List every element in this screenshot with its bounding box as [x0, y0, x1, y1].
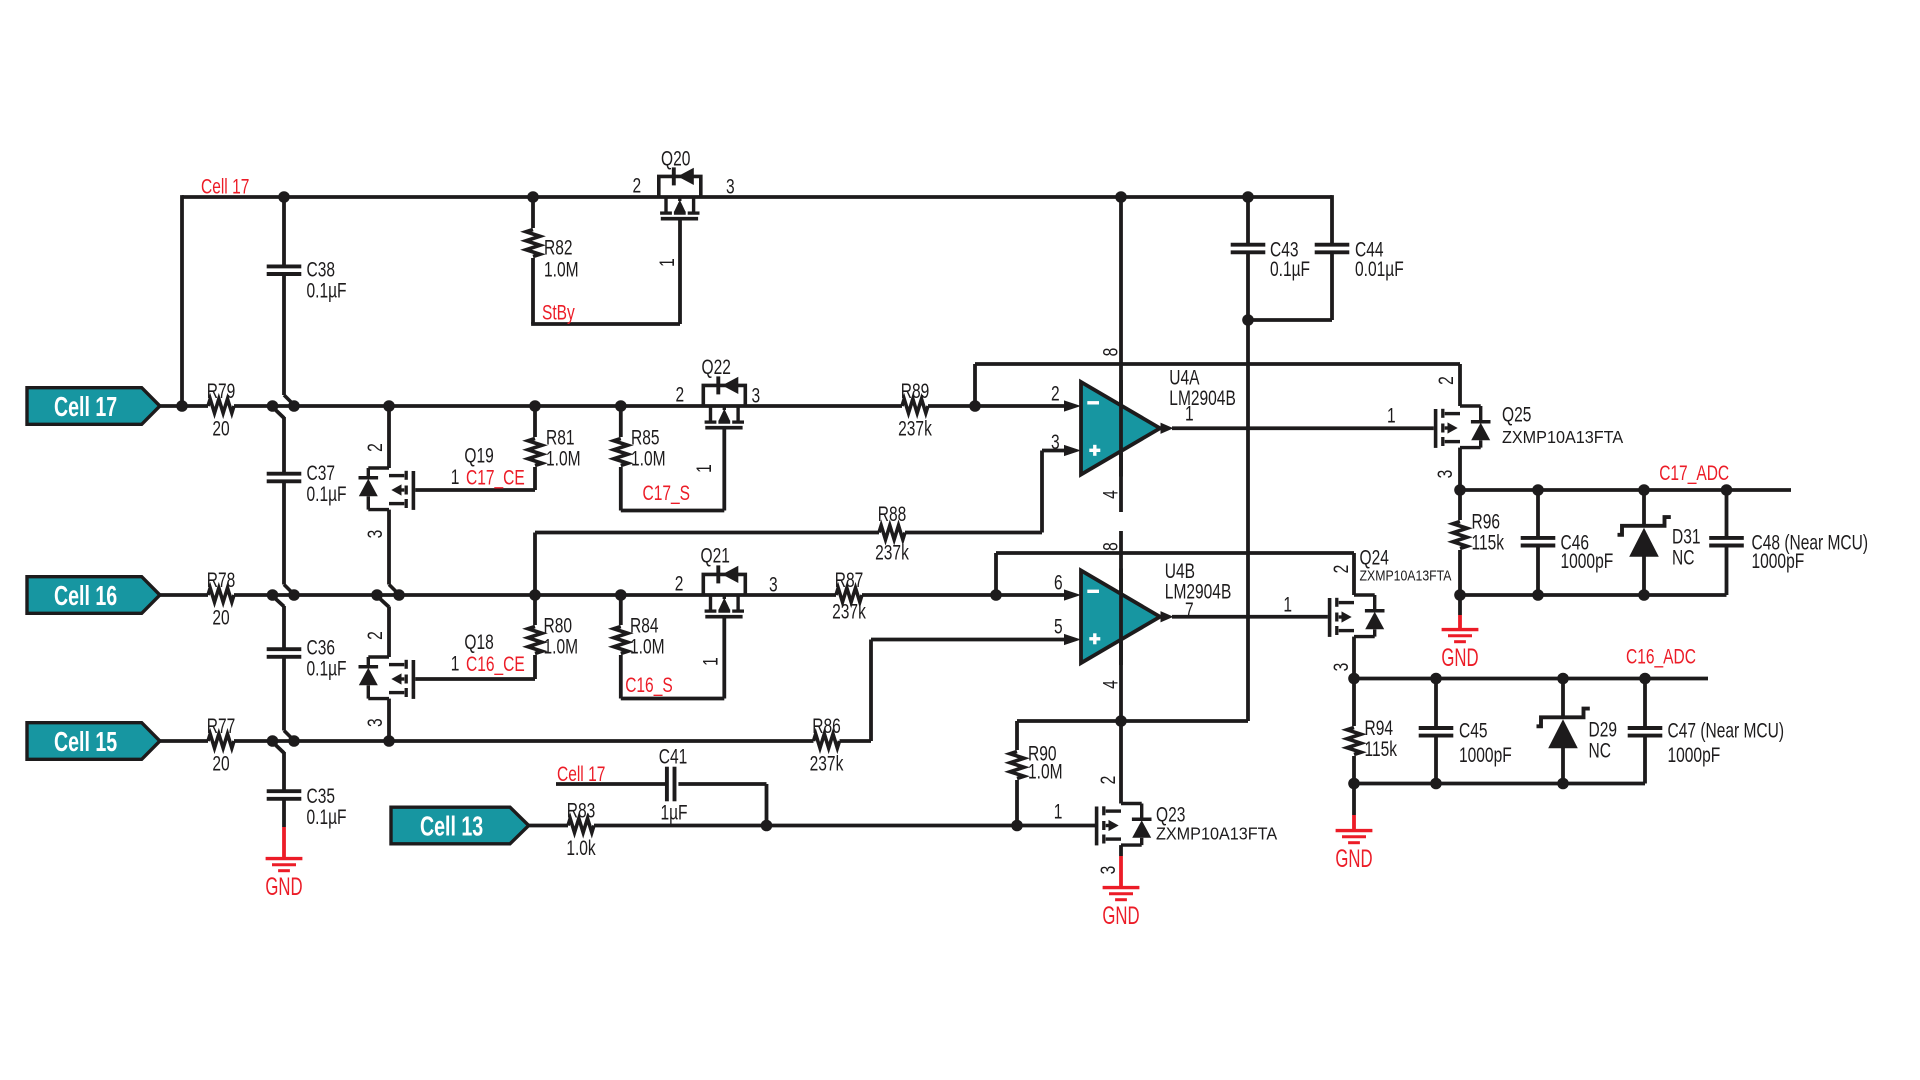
- svg-text:1.0M: 1.0M: [631, 446, 666, 470]
- svg-text:R87: R87: [835, 568, 864, 592]
- node: junction top rail / C43: [1242, 191, 1254, 203]
- wire: C17_ADC ground rail: [1460, 593, 1727, 597]
- svg-text:ZXMP10A13FTA: ZXMP10A13FTA: [1156, 824, 1278, 844]
- svg-text:R88: R88: [878, 501, 907, 525]
- wire: jog C37 below Cell 17 row: [273, 407, 285, 418]
- svg-text:237k: 237k: [810, 751, 844, 775]
- wire: Cell 13 row: [529, 824, 568, 828]
- resistor R87: [836, 588, 862, 602]
- svg-text:2: 2: [675, 571, 684, 595]
- svg-text:4: 4: [1098, 680, 1122, 689]
- svg-text:0.1µF: 0.1µF: [307, 805, 347, 829]
- wire: C17_ADC rail: [1460, 488, 1791, 492]
- svg-text:Cell 17: Cell 17: [557, 761, 605, 785]
- wire: U4B output: [1161, 611, 1174, 622]
- svg-text:Cell 17: Cell 17: [201, 174, 249, 198]
- svg-text:GND: GND: [265, 873, 302, 901]
- capacitor C44: [1330, 195, 1334, 245]
- svg-text:Q23: Q23: [1156, 802, 1185, 826]
- svg-text:6: 6: [1054, 570, 1063, 594]
- svg-text:20: 20: [212, 751, 229, 775]
- transistor Q25: [1458, 364, 1462, 406]
- op-amp U4A: [1081, 382, 1160, 475]
- svg-text:R79: R79: [207, 379, 236, 403]
- svg-text:2: 2: [1329, 565, 1353, 574]
- wire: supply rail over U4B: [1119, 569, 1123, 666]
- svg-text:115k: 115k: [1365, 737, 1398, 761]
- svg-text:Q19: Q19: [464, 443, 493, 467]
- svg-text:Q20: Q20: [661, 146, 690, 170]
- wire: jog C35 below Cell 15 row: [273, 742, 285, 753]
- svg-text:1: 1: [1185, 401, 1194, 425]
- svg-text:237k: 237k: [875, 540, 909, 564]
- wire: R89 out to U4A pin2 riser: [973, 364, 977, 406]
- svg-text:1.0M: 1.0M: [630, 634, 665, 658]
- svg-text:3: 3: [1051, 429, 1060, 453]
- ground GND (R96): [1442, 628, 1479, 631]
- resistor R94: [1352, 679, 1356, 727]
- svg-text:3: 3: [1433, 470, 1457, 479]
- svg-text:1µF: 1µF: [660, 800, 687, 824]
- svg-text:C16_CE: C16_CE: [466, 652, 525, 677]
- svg-text:GND: GND: [1102, 902, 1139, 930]
- flag: Cell 15 input: [27, 723, 160, 760]
- svg-text:Cell 13: Cell 13: [420, 811, 483, 842]
- ground GND (R94): [1336, 829, 1373, 832]
- zener diode D29: [1561, 679, 1565, 717]
- svg-text:3: 3: [1096, 866, 1120, 875]
- capacitor C48: [1725, 490, 1729, 538]
- svg-text:3: 3: [752, 383, 761, 407]
- capacitor C37: [282, 417, 286, 474]
- svg-text:3: 3: [769, 572, 778, 596]
- svg-text:1: 1: [698, 657, 722, 666]
- wire: arrowhead into U4B pin 6: [1064, 589, 1081, 600]
- capacitor C46: [1536, 490, 1540, 538]
- svg-text:Q18: Q18: [464, 630, 493, 654]
- svg-text:C17_S: C17_S: [643, 481, 691, 506]
- capacitor C47: [1643, 679, 1647, 729]
- transistor Q22: [703, 385, 745, 406]
- svg-text:0.1µF: 0.1µF: [307, 656, 347, 680]
- wire: R88 net from Cell16 column to U4A pin 3: [535, 531, 879, 535]
- svg-text:R86: R86: [812, 714, 841, 738]
- svg-text:1.0M: 1.0M: [546, 446, 581, 470]
- svg-text:3: 3: [363, 530, 387, 539]
- resistor R96: [1458, 490, 1462, 520]
- capacitor C45: [1434, 679, 1438, 729]
- svg-text:Q22: Q22: [702, 354, 731, 378]
- svg-text:1.0M: 1.0M: [544, 257, 579, 281]
- wire: R87 out to U4B pin2 riser: [994, 553, 998, 595]
- wire: C44 bottom to C43 column: [1246, 318, 1332, 322]
- svg-text:0.1µF: 0.1µF: [307, 278, 347, 302]
- svg-text:R89: R89: [901, 379, 930, 403]
- ground GND (C35): [266, 857, 303, 860]
- svg-text:C16_ADC: C16_ADC: [1626, 644, 1696, 669]
- svg-text:Cell 15: Cell 15: [54, 727, 117, 758]
- svg-text:8: 8: [1098, 542, 1122, 551]
- node: junction top rail / C38: [278, 191, 290, 203]
- wire: Cell 15 row: [160, 739, 208, 743]
- svg-text:C47 (Near MCU): C47 (Near MCU): [1668, 718, 1785, 742]
- svg-text:3: 3: [1329, 663, 1353, 672]
- svg-text:1: 1: [451, 465, 460, 489]
- wire: jog C36 below Cell 16 row: [273, 596, 285, 607]
- svg-text:2: 2: [633, 173, 642, 197]
- resistor R88: [879, 526, 905, 540]
- wire: V- net to Q23: [1017, 719, 1248, 723]
- wire: red lead to GND: [282, 827, 286, 858]
- svg-text:1: 1: [1054, 799, 1063, 823]
- svg-text:C45: C45: [1459, 718, 1488, 742]
- node: junction top rail / supply column: [1115, 191, 1127, 203]
- svg-text:1: 1: [451, 651, 460, 675]
- svg-text:GND: GND: [1335, 845, 1372, 873]
- svg-text:2: 2: [1051, 381, 1060, 405]
- svg-text:LM2904B: LM2904B: [1169, 386, 1236, 410]
- wire: red lead to GND: [1352, 784, 1356, 816]
- op-amp U4B: [1081, 571, 1160, 664]
- transistor Q23: [1106, 809, 1121, 812]
- resistor R83: [568, 819, 594, 833]
- svg-text:C16_S: C16_S: [625, 672, 673, 697]
- ground GND (Q23): [1103, 886, 1140, 889]
- wire: to Q24 pin 2: [996, 551, 1354, 555]
- svg-text:ZXMP10A13FTA: ZXMP10A13FTA: [1360, 567, 1453, 583]
- svg-text:237k: 237k: [898, 416, 932, 440]
- svg-text:GND: GND: [1441, 644, 1478, 672]
- svg-text:20: 20: [212, 605, 229, 629]
- svg-text:0.1µF: 0.1µF: [307, 482, 347, 506]
- flag: Cell 13 input: [391, 807, 529, 844]
- wire: C17_CE gate net: [415, 488, 535, 492]
- svg-text:ZXMP10A13FTA: ZXMP10A13FTA: [1502, 427, 1624, 447]
- svg-text:Cell 16: Cell 16: [54, 581, 117, 612]
- svg-text:3: 3: [363, 718, 387, 727]
- resistor R79: [208, 399, 234, 413]
- svg-text:2: 2: [1096, 776, 1120, 785]
- svg-text:1000pF: 1000pF: [1459, 742, 1512, 766]
- svg-text:C17_CE: C17_CE: [466, 465, 525, 490]
- svg-text:3: 3: [726, 174, 735, 198]
- wire: Cell 17 stub to C41: [556, 782, 666, 786]
- svg-text:2: 2: [676, 382, 685, 406]
- capacitor C43: [1246, 197, 1250, 245]
- svg-text:NC: NC: [1672, 545, 1694, 569]
- wire: C16_CE gate net: [415, 677, 535, 681]
- capacitor C41: [665, 767, 669, 802]
- svg-text:1.0M: 1.0M: [1028, 759, 1063, 783]
- wire: arrowhead into U4A pin 2: [1064, 400, 1081, 411]
- svg-text:Cell 17: Cell 17: [54, 392, 117, 423]
- svg-text:NC: NC: [1589, 738, 1611, 762]
- svg-text:1: 1: [692, 464, 716, 473]
- resistor R77: [208, 734, 234, 748]
- svg-text:4: 4: [1098, 490, 1122, 499]
- svg-text:5: 5: [1054, 614, 1063, 638]
- resistor R82: [527, 191, 539, 203]
- wire: StBy net: [531, 322, 680, 326]
- wire: red lead to GND: [1119, 856, 1123, 888]
- wire: to Q25 pin 2: [975, 362, 1460, 366]
- svg-text:1.0k: 1.0k: [566, 836, 596, 860]
- resistor R90: [1015, 721, 1019, 750]
- wire: jog Q18 below Cell 16 row: [377, 596, 389, 607]
- svg-text:1000pF: 1000pF: [1668, 742, 1721, 766]
- wire: left drop from top rail to Cell 17 row: [180, 195, 184, 406]
- wire: red lead to GND: [1458, 595, 1462, 615]
- transistor Q18: [387, 607, 391, 658]
- wire: supply rail over U4A: [1119, 380, 1123, 477]
- resistor R89: [902, 399, 928, 413]
- wire: C16_S net: [621, 697, 725, 701]
- resistor R86: [814, 734, 840, 748]
- flag: Cell 17 input: [27, 388, 160, 425]
- svg-text:8: 8: [1098, 348, 1122, 357]
- transistor Q24: [1352, 553, 1356, 595]
- svg-text:237k: 237k: [832, 599, 866, 623]
- svg-text:R83: R83: [567, 798, 596, 822]
- wire: C17_S net: [621, 509, 725, 513]
- svg-text:R77: R77: [207, 714, 236, 738]
- resistor R85: [619, 406, 623, 437]
- svg-text:R78: R78: [207, 568, 236, 592]
- svg-text:20: 20: [212, 416, 229, 440]
- capacitor C36: [282, 606, 286, 649]
- svg-text:0.1µF: 0.1µF: [1270, 256, 1310, 280]
- svg-text:C41: C41: [659, 744, 688, 768]
- svg-text:2: 2: [363, 631, 387, 640]
- svg-text:2: 2: [1434, 376, 1458, 385]
- resistor R81: [533, 406, 537, 437]
- transistor Q20: [659, 176, 701, 197]
- svg-text:1: 1: [1283, 592, 1292, 616]
- zener diode D31: [1642, 490, 1646, 525]
- svg-text:1000pF: 1000pF: [1561, 548, 1614, 572]
- resistor R80: [533, 533, 537, 626]
- wire: C16_ADC rail: [1354, 677, 1708, 681]
- svg-text:1.0M: 1.0M: [544, 634, 579, 658]
- svg-text:R82: R82: [544, 235, 573, 259]
- wire: U4A output: [1161, 423, 1174, 434]
- svg-text:LM2904B: LM2904B: [1165, 579, 1232, 603]
- transistor Q19: [387, 406, 391, 468]
- wire: riser to U4B pin 5: [869, 640, 873, 742]
- svg-text:Q24: Q24: [1360, 545, 1389, 569]
- wire: supply rail V+ pin8 column: [1119, 197, 1123, 512]
- svg-text:Q21: Q21: [701, 543, 730, 567]
- wire: arrowhead into U4B pin 5: [1064, 634, 1081, 645]
- wire: C16_ADC ground rail: [1354, 782, 1645, 786]
- resistor R84: [619, 595, 623, 625]
- svg-text:115k: 115k: [1472, 530, 1505, 554]
- flag: Cell 16 input: [27, 577, 160, 614]
- wire: Cell 16 row: [160, 593, 208, 597]
- wire: Cell 17 row: [160, 404, 208, 408]
- svg-text:StBy: StBy: [542, 300, 575, 324]
- svg-text:Q25: Q25: [1502, 402, 1531, 426]
- transistor Q21: [703, 574, 745, 595]
- svg-text:C17_ADC: C17_ADC: [1659, 461, 1729, 486]
- wire: arrowhead into U4A pin 3: [1064, 445, 1081, 456]
- svg-text:1: 1: [1387, 403, 1396, 427]
- svg-text:0.01µF: 0.01µF: [1355, 256, 1404, 280]
- capacitor C38: [282, 197, 286, 266]
- svg-text:1000pF: 1000pF: [1752, 548, 1805, 572]
- svg-text:2: 2: [363, 443, 387, 452]
- capacitor C35: [282, 752, 286, 791]
- wire: top Cell 17 rail: [182, 195, 1332, 199]
- resistor R78: [208, 588, 234, 602]
- svg-text:1: 1: [655, 258, 679, 267]
